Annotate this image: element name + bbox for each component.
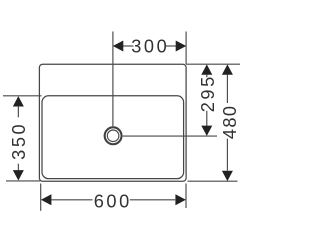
center extension line (300 left / drain axis)	[112, 32, 114, 127]
dimension line 600	[52, 199, 93, 201]
top-right extension line (basin top edge extended)	[186, 63, 240, 65]
arrow 350 down	[13, 170, 24, 180]
arrow 300 right	[176, 41, 187, 52]
svg-text:295: 295	[198, 74, 218, 112]
drain outer circle	[105, 127, 122, 144]
dimension line 295	[206, 75, 208, 78]
svg-text:480: 480	[220, 105, 240, 140]
arrow 600 left	[41, 194, 52, 205]
arrow 350 up	[13, 96, 24, 106]
svg-text:600: 600	[94, 191, 132, 211]
drain inner circle	[107, 130, 119, 142]
arrow 480 down	[222, 171, 233, 181]
svg-text:350: 350	[9, 122, 29, 160]
drain center extension line to right	[123, 135, 217, 137]
dimension line 480	[226, 75, 228, 103]
arrow 300 left	[113, 41, 124, 52]
bottom left extension line	[40, 184, 42, 211]
left top extension line (inner rim edge extended)	[3, 95, 42, 97]
dimension line 350	[17, 107, 19, 118]
svg-text:300: 300	[131, 37, 169, 57]
basin outer outline	[39, 64, 186, 181]
arrow 295 down	[201, 126, 212, 136]
arrow 600 right	[175, 194, 186, 205]
arrow 295 up	[201, 64, 212, 74]
basin inner rim	[42, 96, 184, 179]
bottom right extension line	[185, 184, 187, 209]
arrow 480 up	[222, 64, 233, 74]
dimension line 300	[123, 45, 133, 47]
left bottom extension line (basin bottom extended)	[6, 180, 40, 182]
right extension line of 300	[185, 32, 187, 65]
bottom-right extension line (basin bottom edge extended)	[188, 180, 238, 182]
